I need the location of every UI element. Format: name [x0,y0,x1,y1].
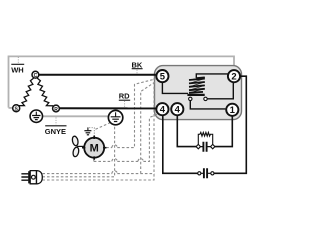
wire WH top bus (gray) [9,56,235,108]
wire stub relay 4a to fan-motor drop (dashed tip) [149,114,157,117]
svg-text:4: 4 [160,105,166,116]
wire BK: compressor C to relay 5 (black) [39,74,156,76]
prongs [21,174,28,180]
dashed network [42,78,155,180]
fan blades [71,136,79,158]
compressor winding C-S (zigzag) [19,78,34,106]
ground fan chassis earth symbol [84,127,91,134]
run capacitor [196,142,215,152]
wire plug L to relay 5 (dashed, vertical V_B) [42,82,155,174]
relay terminal 2 [228,70,240,83]
hop bump M-bottom over V_B vertical [138,159,143,162]
hop bump M-bottom over PE vertical [112,159,117,162]
terminal R [53,105,60,113]
svg-text:BK: BK [132,60,143,69]
hop bump plug-L over PE vertical [112,171,117,174]
svg-text:RD: RD [119,92,130,101]
ground PE right [108,110,122,124]
relay wire left contact to terminal 1 [190,101,225,109]
svg-text:C: C [34,73,38,79]
power plug [21,171,42,184]
relay armature plate [187,94,204,96]
svg-text:WH: WH [11,66,24,75]
relay contact left [189,97,192,100]
svg-text:GNYE: GNYE [45,127,66,136]
svg-text:5: 5 [160,72,166,83]
fan motor M [82,136,106,160]
hop bump M-right over PE vertical [112,145,117,148]
wire fan M chassis to PE ground (dashed diagonal) [96,123,111,130]
fan motor ground tick (dotted) [89,128,94,137]
wire fan M right to relay 5 (dashed, vertical V_A) [106,79,156,148]
compressor winding C-R (zigzag) [37,78,53,106]
label WH [11,57,24,75]
svg-text:1: 1 [230,105,236,116]
relay terminal 5 [156,70,168,83]
wire terminal 2 to start capacitor (black) [214,76,246,173]
wire plug PE to ground (dashed, vertical V_PE) [42,125,114,177]
fan shaft [77,145,85,147]
label BK [132,60,143,73]
svg-text:M: M [90,143,99,155]
relay coil top connector to terminal 2 [196,74,227,78]
body [30,171,36,184]
label RD [119,92,131,107]
relay coil [189,77,205,92]
relay internal: wire 5 to armature plate [162,82,188,93]
relay terminal 1 [226,104,238,116]
terminal C [32,71,39,79]
svg-text:4: 4 [175,105,181,116]
relay box [155,66,242,120]
bleed resistor across run capacitor [198,132,212,144]
wire terminal 1 to run capacitor (black) [214,116,232,146]
relay terminal 4b [171,103,183,116]
start capacitor [198,168,214,178]
wire fan M bottom to relay 4 (dashed, vertical V_C) [94,118,150,162]
resistor zigzag [200,132,211,136]
wire RD: compressor R to relay 4 (black) [59,107,156,109]
label GNYE [45,118,67,137]
stubs [82,136,106,160]
relay wire right contact to terminal 2 [207,83,233,99]
wire run capacitor to terminal 4b (black) [177,116,196,147]
relay contact right [204,97,207,100]
terminal S [13,105,20,113]
relay terminal 4a [156,103,168,116]
wire start capacitor to terminal 4a (black) [163,116,198,173]
svg-text:2: 2 [231,72,236,83]
ground PE left [30,110,42,122]
svg-text:R: R [54,107,58,113]
wire GNYE (gray) [43,115,109,117]
face bar [28,171,30,183]
wire plug N to relay 5 (dashed, vertical along box edge) [42,78,154,180]
